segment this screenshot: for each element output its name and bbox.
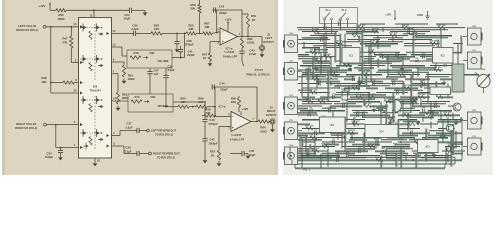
wire R67 to op-amp [212, 32, 220, 34]
wire bus y153.2 [451, 152, 463, 155]
wire vertical x315 #1 [314, 138, 316, 156]
resistor R126 (right panel) [367, 93, 376, 98]
wire bus y103.7 [334, 103, 356, 105]
wire vertical x306 #1 [305, 135, 307, 153]
svg-text:R7 1K: R7 1K [369, 50, 375, 52]
wire bus y67.7 [416, 67, 436, 70]
resistor R66 10K [196, 96, 207, 108]
wire bus y106.0 [412, 105, 440, 108]
svg-text:2.2μF: 2.2μF [249, 52, 257, 56]
wire bus y88.0 [424, 87, 430, 89]
resistor R60 20K [231, 96, 241, 112]
IC6 internal VCA cell 3 [81, 96, 104, 112]
left schematic panel background [2, 0, 278, 175]
wire vertical x338 #1 [337, 133, 339, 140]
svg-text:R39 1K: R39 1K [408, 121, 416, 123]
IC U7 shaded (right panel) [452, 64, 464, 92]
wire vertical x331 #1 [330, 57, 332, 80]
wire bus y27.6 [297, 27, 465, 29]
wire bus y56.6 [360, 56, 376, 58]
connector J3 LEFT OUTPUT [259, 32, 274, 52]
wire vertical x413 #0 [412, 72, 414, 79]
ground (right panel) [388, 120, 393, 125]
svg-text:IC4: IC4 [379, 130, 384, 134]
capacitor C125 (right panel) [332, 93, 337, 99]
svg-text:10K: 10K [198, 100, 203, 104]
wire bus y124.0 [398, 123, 410, 126]
wire bus y157.7 [336, 157, 366, 159]
svg-text:−: − [232, 114, 234, 118]
wire bus y155.5 [386, 155, 418, 157]
op-amp U-IC7-b [219, 105, 255, 142]
capacitor C122 (right panel) [396, 89, 401, 95]
svg-text:GND: GND [417, 13, 423, 17]
wire bus y153.2 [413, 152, 434, 154]
wire bus y103.7 [302, 103, 332, 105]
capacitor C144 (right panel) [332, 138, 336, 144]
wire vertical x302 #0 [301, 75, 303, 98]
svg-text:14-kHz LPF: 14-kHz LPF [223, 55, 238, 59]
svg-text:50K: 50K [151, 95, 156, 99]
wire vertical x378 #2 [377, 59, 380, 68]
ground (right panel) [416, 120, 421, 125]
wire bus y124.0 [298, 123, 310, 126]
capacitor C178 (right panel) [322, 116, 327, 122]
wire vertical x378 #0 [377, 36, 379, 50]
wire bus y106.0 [298, 105, 322, 107]
wire bus y76.7 [386, 76, 406, 79]
capacitor C47 1&#956;F [147, 68, 159, 94]
svg-text:1K: 1K [211, 153, 215, 157]
svg-text:FROM C22 (FIG.4): FROM C22 (FIG.4) [15, 126, 37, 130]
wire bus y47.5 [302, 47, 320, 50]
svg-text:C47: C47 [154, 69, 159, 73]
wire bus y151.0 [298, 150, 328, 152]
resistor R186 (right panel) [440, 135, 448, 139]
junction pin11 drop [90, 9, 95, 17]
svg-text:TO K7: TO K7 [255, 68, 264, 72]
wire bus y63.2 [343, 62, 365, 65]
ground (right panel) [400, 66, 405, 71]
resistor R142 (right panel) [371, 134, 380, 139]
wire bus y88.0 [366, 87, 378, 90]
resistor R55 10K [186, 23, 196, 35]
wire vertical x431 #1 [430, 122, 432, 129]
ground (R61) [122, 79, 127, 84]
wire vertical x458 #0 [457, 44, 459, 75]
svg-text:R37 22K: R37 22K [305, 126, 314, 128]
wire vertical x413 #2 [412, 97, 414, 106]
resistor R107 (right panel) [316, 57, 324, 62]
wire vertical x443 #0 [442, 120, 444, 143]
wire bus y72.2 [376, 71, 408, 73]
wire pin 7 branch [112, 69, 119, 92]
wire vertical x401 #1 [400, 151, 403, 168]
wire bus y99.2 [298, 98, 310, 101]
svg-text:14-kHz LPF: 14-kHz LPF [230, 137, 245, 141]
wire vertical x411 #0 [410, 95, 412, 113]
wire vertical x416 #0 [415, 32, 418, 37]
wire bus y85.7 [358, 85, 390, 87]
resistor R63 185&#937; [116, 92, 129, 104]
wire bus y35.5 [310, 35, 341, 37]
svg-text:R79: R79 [135, 95, 140, 99]
wire vertical x354 #0 [353, 117, 356, 126]
junction node (right panel) [399, 58, 404, 62]
svg-text:10K: 10K [205, 111, 210, 115]
wire bus y45.7 [365, 45, 391, 48]
wire vertical x448 #2 [447, 84, 449, 98]
capacitor C40 2.2&#956;F [239, 48, 256, 62]
wire bus y101.5 [422, 101, 450, 103]
resistor R127 (right panel) [409, 99, 418, 103]
svg-text:185Ω: 185Ω [128, 77, 136, 81]
wire vertical x371 #1 [370, 68, 372, 82]
svg-text:R22 47K: R22 47K [425, 111, 434, 114]
resistor R113 (right panel) [361, 71, 370, 76]
resistor R114 (right panel) [397, 72, 406, 76]
svg-text:LEFT REVERB OUT: LEFT REVERB OUT [151, 129, 176, 133]
wire vertical x393 #0 [392, 93, 395, 124]
wire bus y92.5 [336, 92, 370, 94]
wire bus y67.7 [354, 67, 374, 70]
wire bus y137.5 [388, 137, 415, 140]
svg-text:2700pF: 2700pF [209, 122, 218, 126]
wire vertical x416 #2 [415, 153, 418, 168]
svg-text:+: + [232, 126, 234, 130]
connector J23 (right edge) [463, 136, 483, 155]
wire vertical x413 #1 [412, 32, 415, 55]
wire vertical x345 #1 [344, 34, 346, 52]
wire vertical x338 #0 [337, 151, 339, 160]
resistor R193 (right panel) [375, 156, 384, 161]
wire bus y58.8 [386, 58, 410, 61]
resistor R59 20K [190, 0, 201, 33]
wire bus y115.0 [298, 114, 318, 116]
wire right input to pin 4 [46, 120, 78, 125]
wire bus y151.0 [412, 150, 435, 152]
wire bus y135.2 [396, 134, 418, 137]
svg-text:IC7-b: IC7-b [219, 105, 226, 109]
wire vertical x426 #0 [425, 131, 427, 162]
wire bus y76.7 [298, 76, 326, 78]
svg-text:+12V: +12V [38, 4, 45, 8]
wire vertical x371 #2 [370, 40, 372, 58]
resistor R134 (right panel) [404, 112, 412, 116]
wire vertical x433 #0 [432, 55, 434, 60]
capacitor C23 10&#956;F [124, 8, 145, 21]
connector J20 (right edge) [463, 26, 483, 45]
capacitor C190 (right panel) [426, 147, 431, 153]
wire vertical x378 #1 [377, 138, 379, 147]
wire vertical x300 #0 [299, 135, 301, 153]
wire vertical x364 #0 [363, 28, 365, 32]
wire bus y61.0 [302, 60, 330, 63]
svg-text:S1-a: S1-a [325, 9, 331, 12]
resistor R49 48K [41, 76, 78, 84]
resistor R52 1K [210, 127, 221, 161]
resistor R103 (right panel) [372, 40, 379, 45]
wire bus y160.0 [290, 159, 462, 162]
ground (right panel) [454, 120, 459, 125]
resistor R137 (right panel) [351, 120, 360, 125]
wire vertical x340 #0 [339, 34, 342, 65]
svg-text:2.2μF: 2.2μF [125, 125, 132, 129]
capacitor C174 (right panel) [328, 107, 333, 113]
wire bus y99.2 [312, 98, 328, 100]
wire vertical x398 #1 [397, 120, 400, 138]
svg-text:R55 47K: R55 47K [357, 24, 366, 27]
ground (R63) [116, 106, 121, 111]
wire bus y164.0 [292, 163, 455, 165]
IC6 internal cell 4b [83, 143, 89, 150]
wire volume box to rail [172, 33, 185, 57]
wire bus y108.2 [376, 107, 387, 109]
wire vertical x359 #0 [358, 36, 361, 43]
junction node (right panel) [413, 35, 418, 40]
wire vertical x396 #0 [395, 153, 398, 167]
wire vertical x349 #1 [348, 86, 350, 95]
connector J11 (left edge) [283, 60, 302, 80]
svg-text:C44: C44 [219, 81, 225, 85]
wire bus y139.7 [298, 139, 322, 142]
wire bus y142.0 [322, 141, 355, 143]
svg-text:IC5: IC5 [426, 145, 431, 149]
wire bus y153.2 [322, 152, 355, 155]
svg-text:R28 10K: R28 10K [321, 144, 330, 146]
wire vertical x373 #0 [372, 129, 375, 136]
wire vertical x386 #0 [385, 104, 388, 127]
wire bus y119.5 [302, 119, 319, 122]
svg-text:TDA1074: TDA1074 [89, 88, 101, 92]
wire bus y65.5 [336, 65, 352, 68]
IC U5 (right panel) [418, 140, 439, 153]
wire vertical x383 #1 [382, 55, 384, 60]
wire bus y97.0 [302, 96, 315, 99]
wire vertical x461 #0 [460, 117, 463, 122]
wire bus y142.0 [438, 141, 463, 144]
diode D63 (right panel) [416, 57, 420, 63]
ground (C39) [175, 47, 180, 52]
wire bus y70.0 [378, 69, 412, 72]
capacitor C177 (right panel) [434, 102, 439, 108]
wire vertical x304 #0 [303, 42, 305, 49]
wire bus y88.0 [385, 87, 418, 90]
capacitor C38 2.2&#956;F [124, 146, 148, 157]
wire vertical x347 #0 [346, 99, 348, 122]
svg-text:C42: C42 [209, 138, 215, 142]
wire bus y61.0 [362, 60, 400, 63]
wire bus y85.7 [334, 85, 370, 88]
wire vertical x453 #0 [452, 113, 454, 120]
ground (right panel) [432, 152, 437, 157]
svg-text:R14 22K: R14 22K [417, 93, 426, 96]
wire bus y52.3 [360, 51, 400, 53]
wire bus y117.2 [423, 116, 434, 119]
svg-text:R13 1K: R13 1K [384, 99, 392, 101]
svg-text:R24 1K: R24 1K [348, 129, 356, 132]
wire pin 9 branch [112, 58, 125, 62]
svg-text:R21 47K: R21 47K [387, 116, 396, 119]
wire vertical x426 #1 [425, 147, 427, 161]
wire vertical x328 #1 [327, 75, 330, 82]
resistor R156 (right panel) [437, 25, 446, 29]
resistor R171 (right panel) [355, 94, 364, 98]
capacitor C35 3.3&#956;F [131, 23, 139, 36]
svg-text:IC1: IC1 [349, 54, 354, 58]
ground (C23) [143, 10, 148, 15]
wire vertical x333 #0 [332, 111, 334, 125]
capacitor C118 (right panel) [392, 80, 397, 86]
IC6 pin 16 ground [95, 158, 100, 163]
resistor R175 (right panel) [363, 103, 372, 107]
capacitor C195 (right panel) [338, 20, 343, 26]
svg-text:R60 47K: R60 47K [429, 40, 438, 43]
net +12V (right panel) [385, 10, 396, 21]
svg-text:10K: 10K [180, 100, 185, 104]
svg-text:TO R19 (FIG.3): TO R19 (FIG.3) [155, 133, 173, 137]
diode D28 (right panel) [310, 107, 314, 112]
resistor R61 185&#937; [122, 62, 135, 81]
wire bus y115.0 [432, 114, 460, 117]
svg-text:R46 1K: R46 1K [368, 143, 376, 146]
diode D53 (right panel) [324, 24, 328, 29]
diode D32 (right panel) [308, 112, 312, 117]
wire bus y92.5 [376, 92, 408, 94]
resistor R61b 1K [242, 14, 257, 37]
wire bus y81.2 [357, 80, 383, 83]
wire vertical x349 #0 [348, 57, 350, 66]
connector J13 (left edge) [283, 120, 302, 140]
wire vertical x423 #0 [422, 117, 424, 122]
svg-text:R16 10K: R16 10K [433, 67, 442, 69]
svg-text:+12V: +12V [385, 13, 392, 17]
wire vertical x406 #0 [405, 156, 407, 161]
wire bus y148.7 [346, 148, 375, 151]
IC U6 (right panel) [430, 87, 451, 95]
svg-text:R27 47K: R27 47K [367, 93, 376, 96]
wire bus y43.5 [404, 43, 440, 45]
ground (right panel) [306, 152, 311, 157]
wire bus y29.8 [298, 29, 448, 31]
svg-text:LEFT VCA IN: LEFT VCA IN [18, 24, 36, 28]
resistor R106 (right panel) [368, 50, 375, 54]
svg-text:R31 22K: R31 22K [377, 108, 386, 110]
wire vertical x428 #0 [427, 72, 429, 103]
connector J22 (right edge) [463, 110, 483, 129]
wire vertical x313 #0 [312, 57, 315, 80]
resistor R160 (right panel) [324, 53, 332, 58]
wire left input to pin 14 [46, 22, 79, 27]
wire bus y146.5 [382, 146, 410, 149]
net GND (right panel) [417, 11, 430, 19]
wire vertical x438 #0 [437, 40, 440, 49]
wire mid row [165, 94, 178, 108]
wire bus y139.7 [409, 139, 430, 141]
svg-text:10K: 10K [188, 27, 194, 31]
ground (C42) [203, 158, 208, 163]
wire bus y37.7 [373, 37, 403, 39]
wire vertical x381 #0 [380, 156, 383, 169]
svg-text:R6 47K: R6 47K [312, 75, 320, 78]
wire bus y56.6 [384, 56, 415, 59]
capacitor C44 220pF feedback [212, 81, 257, 121]
wire bus y97.0 [400, 96, 430, 99]
svg-text:R32 10K: R32 10K [447, 144, 456, 146]
wire bus y128.5 [438, 128, 455, 130]
wire bus y110.5 [428, 110, 452, 113]
wire bus y142.0 [362, 141, 392, 143]
wire bus y35.5 [362, 35, 408, 37]
resistor R65 185&#937; [56, 9, 66, 21]
wire bus y112.7 [419, 112, 439, 115]
wire bus y157.7 [386, 157, 401, 160]
wire bus y117.2 [362, 116, 395, 118]
potentiometer R-level (circled) [475, 69, 490, 93]
wire vertical x426 #2 [425, 129, 428, 160]
wire vertical x421 #1 [420, 99, 422, 106]
wire bus y135.2 [331, 134, 342, 136]
wire bus y74.5 [464, 74, 479, 77]
wire vertical x321 #0 [320, 153, 322, 168]
wire bus y83.5 [326, 83, 365, 85]
wire vertical x451 #2 [450, 124, 453, 147]
IC6 internal VCA cell 1 [81, 24, 104, 40]
wire bus y142.0 [398, 141, 417, 143]
wire bus y137.5 [422, 137, 448, 140]
wire bus y24.0 [436, 23, 458, 25]
svg-text:C39: C39 [186, 39, 192, 43]
wire bus y97.0 [438, 96, 453, 99]
wire bus y110.5 [300, 110, 345, 113]
resistor R130 (right panel) [377, 108, 386, 112]
wire bus y157.7 [421, 157, 448, 159]
wire bus y106.0 [370, 105, 388, 108]
wire vertical x416 #1 [415, 97, 417, 102]
svg-text:1μF: 1μF [154, 72, 159, 76]
wire bus y31.5 [302, 31, 338, 33]
resistor R115 (right panel) [433, 67, 442, 71]
wire bus y52.3 [305, 51, 328, 53]
wire R66 to op-amp b [207, 106, 216, 116]
junction node (right panel) [385, 133, 390, 138]
svg-text:IC2: IC2 [441, 54, 446, 58]
wire bus y31.5 [346, 31, 378, 34]
svg-text:RIGHT: RIGHT [267, 109, 276, 113]
ground (J3) [260, 52, 265, 57]
capacitor C45 10&#956;F [230, 149, 256, 157]
svg-text:100Ω: 100Ω [260, 129, 267, 133]
svg-text:R49 22K: R49 22K [311, 147, 320, 150]
wire vertical x335 #0 [334, 120, 337, 134]
wire bus y135.2 [428, 134, 454, 137]
wire bus y76.7 [425, 76, 449, 78]
svg-text:185Ω: 185Ω [57, 17, 65, 21]
wire vertical x448 #1 [447, 117, 449, 126]
wire bus y121.7 [437, 121, 461, 124]
svg-text:100Ω: 100Ω [247, 41, 255, 45]
capacitor C119 (right panel) [422, 80, 427, 86]
wire reverb box right [173, 101, 206, 103]
ground (J4) [270, 127, 275, 132]
wire bus y56.6 [420, 56, 450, 58]
capacitor C192 (right panel) [336, 156, 341, 162]
IC6 pin entry arrows [80, 25, 109, 149]
wire vertical x376 #0 [375, 135, 377, 149]
wire vertical x441 #2 [440, 111, 442, 120]
svg-text:20K: 20K [190, 7, 196, 11]
resistor R112 (right panel) [329, 71, 338, 76]
